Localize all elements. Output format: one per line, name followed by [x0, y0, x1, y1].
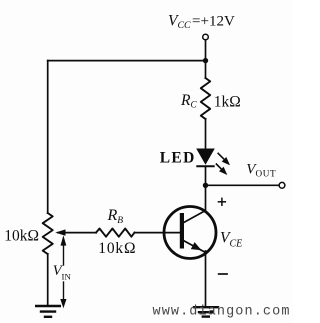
svg-text:10kΩ: 10kΩ: [98, 240, 136, 257]
svg-text:10kΩ: 10kΩ: [4, 228, 39, 245]
svg-text:www.diangon.com: www.diangon.com: [153, 305, 291, 320]
svg-text:LED: LED: [160, 150, 196, 167]
svg-text:1kΩ: 1kΩ: [214, 93, 241, 110]
